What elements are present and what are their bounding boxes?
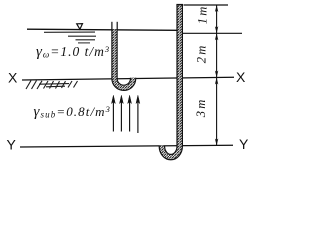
dimension extension line at tube top xyxy=(184,4,229,6)
dim arrow up below water line xyxy=(215,33,218,40)
water shading stroke 2 xyxy=(68,35,96,37)
svg-text:Y: Y xyxy=(7,137,17,153)
seepage arrow 1 xyxy=(112,95,116,131)
dim arrow up below X line xyxy=(215,78,218,85)
seepage arrow 3 xyxy=(128,95,132,131)
water shading stroke 3 xyxy=(76,39,96,41)
water table symbol (nabla) xyxy=(77,24,83,30)
left piezometer tube: open top (empty above water level) xyxy=(112,22,117,30)
dim arrow down at water line xyxy=(215,26,218,33)
line Y-Y xyxy=(20,145,233,147)
svg-text:Y: Y xyxy=(239,136,249,152)
water shading stroke 4 xyxy=(78,42,90,44)
vertical dimension line xyxy=(216,5,218,146)
svg-text:X: X xyxy=(236,69,246,85)
line X-X xyxy=(22,77,234,80)
svg-text:2m: 2m xyxy=(195,45,209,63)
dim arrow down at X line xyxy=(215,71,218,78)
svg-text:X: X xyxy=(8,70,18,86)
svg-text:1m: 1m xyxy=(196,6,210,24)
water shading stroke 1 xyxy=(44,31,95,33)
dim arrow down at Y line xyxy=(215,139,218,146)
dim arrow up at top xyxy=(215,5,218,12)
water surface line xyxy=(27,29,177,30)
svg-text:3m: 3m xyxy=(194,99,208,118)
ground hatch scribble under X line xyxy=(26,81,78,90)
left piezometer tube: water-filled part with J-hook opening at X level xyxy=(115,30,134,88)
seepage arrow 2 xyxy=(120,95,124,131)
seepage arrow 4 xyxy=(136,95,140,133)
right piezometer tube: water to its top, J-hook opening at Y level xyxy=(162,5,183,158)
water surface line right segment xyxy=(183,32,242,34)
